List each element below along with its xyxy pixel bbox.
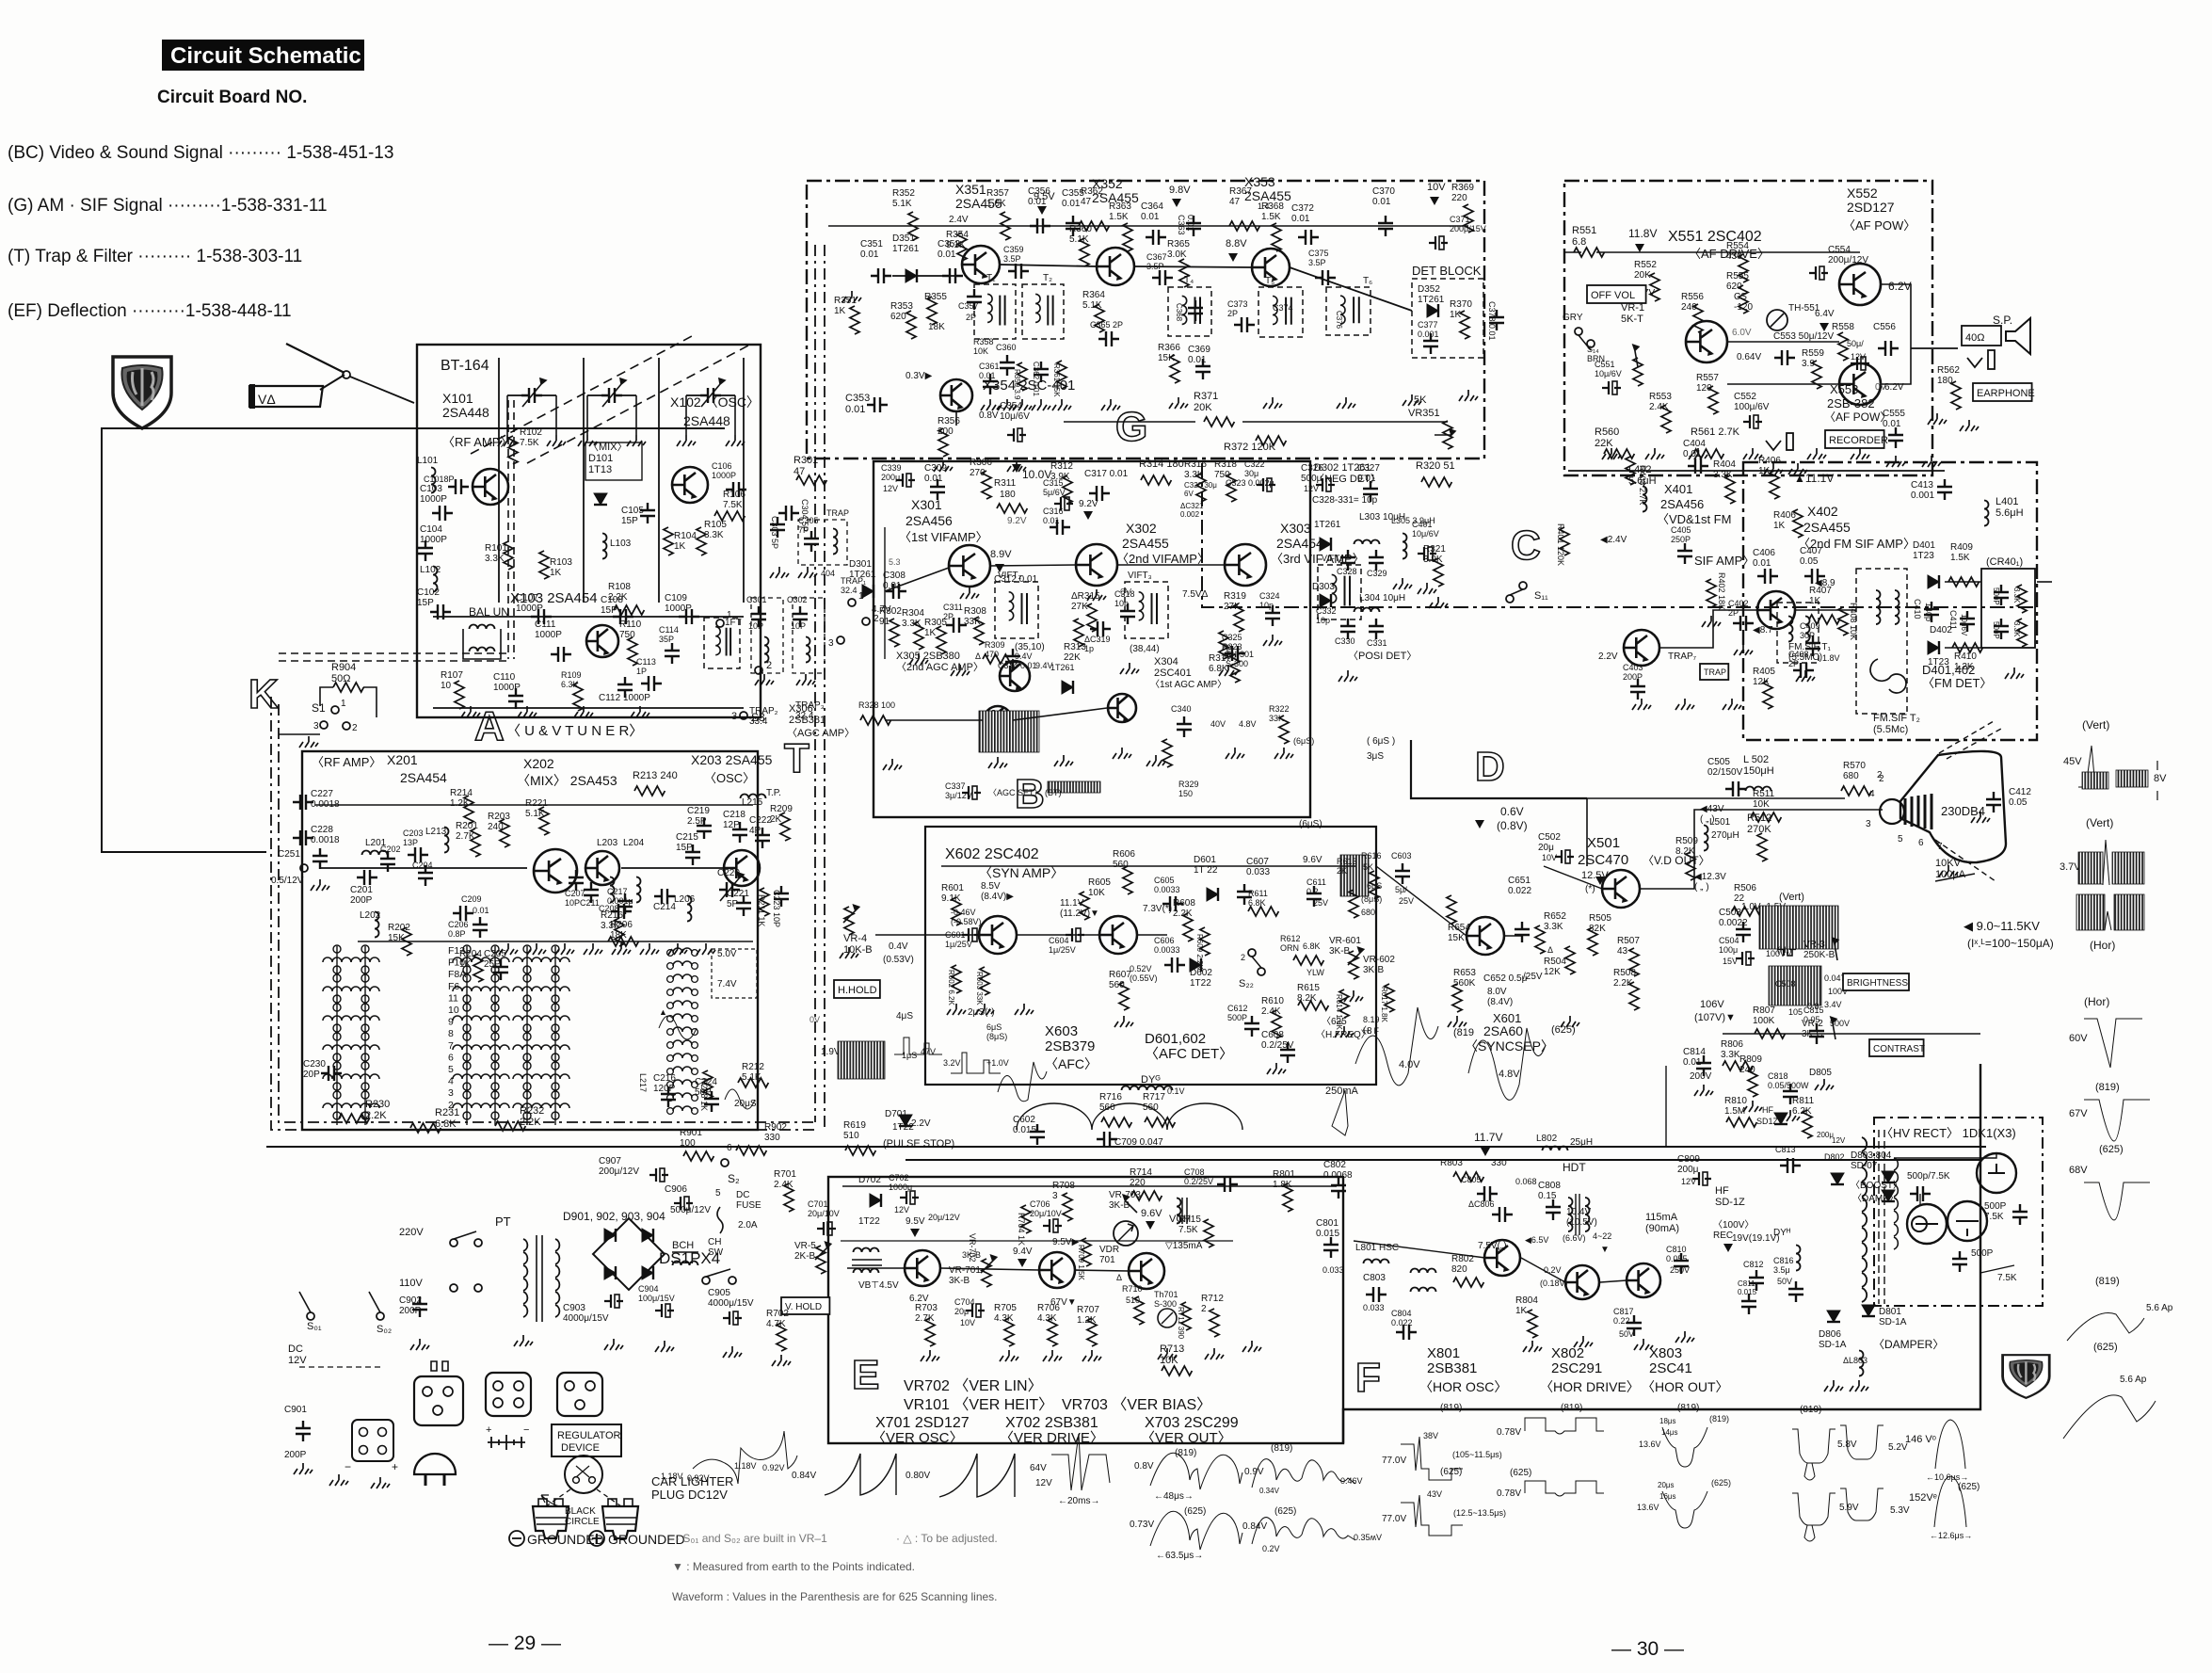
wire xyxy=(1579,335,1591,350)
resistor R317 xyxy=(1219,631,1228,659)
svg-text:A: A xyxy=(474,703,505,749)
svg-text:R319: R319 xyxy=(1224,591,1246,602)
svg-text:VR-5: VR-5 xyxy=(794,1241,816,1251)
svg-text:0.35ʍV: 0.35ʍV xyxy=(1354,1533,1382,1542)
svg-text:-120: -120 xyxy=(1734,302,1753,313)
svg-text:DC: DC xyxy=(288,1343,303,1355)
pot VR-3 xyxy=(1833,938,1838,960)
svg-text:13.6V: 13.6V xyxy=(1639,1440,1661,1449)
svg-text:220V: 220V xyxy=(399,1227,424,1238)
svg-text:2.7K: 2.7K xyxy=(915,1313,935,1324)
ground xyxy=(798,567,817,578)
wire xyxy=(1795,609,1856,611)
capacitor C104 xyxy=(418,540,433,561)
svg-text:2K-B: 2K-B xyxy=(794,1251,816,1262)
svg-text:5.6 Ap: 5.6 Ap xyxy=(2120,1375,2147,1385)
svg-text:(Vert): (Vert) xyxy=(2086,816,2113,829)
svg-text:(BC) Video & Sound Signal ····: (BC) Video & Sound Signal ········· 1-53… xyxy=(8,143,393,163)
svg-text:9.4V: 9.4V xyxy=(1013,1247,1033,1257)
svg-text:10p: 10p xyxy=(1316,616,1330,625)
svg-text:0.002: 0.002 xyxy=(1180,510,1200,519)
svg-text:C904: C904 xyxy=(638,1284,659,1294)
resistor R552 xyxy=(1650,273,1659,301)
dash link S01 S02 xyxy=(299,1366,380,1368)
capacitor xyxy=(1030,218,1050,233)
pot VR-701 xyxy=(981,1255,997,1273)
svg-text:3.5μ: 3.5μ xyxy=(1773,1265,1790,1275)
capacitor xyxy=(1396,1325,1417,1340)
sawtooth group 1 xyxy=(825,1454,896,1495)
ground xyxy=(677,435,696,446)
svg-text:X402: X402 xyxy=(1807,504,1838,519)
capacitor xyxy=(1120,603,1135,624)
svg-text:4.8V: 4.8V xyxy=(1499,1069,1520,1080)
CRT grid bars xyxy=(1905,794,1931,829)
switch S14 b xyxy=(1587,340,1595,347)
waveform xyxy=(1332,1090,1348,1135)
ground xyxy=(527,943,546,955)
svg-text:(Iˣ.ᴸ=100~150μA): (Iˣ.ᴸ=100~150μA) xyxy=(1967,937,2054,950)
ground xyxy=(1634,1339,1653,1350)
capacitor xyxy=(508,688,523,709)
svg-text:←12.6μs→: ←12.6μs→ xyxy=(1930,1531,1972,1540)
svg-text:3.3K: 3.3K xyxy=(1544,922,1563,932)
svg-text:〈HOR DRIVE〉: 〈HOR DRIVE〉 xyxy=(1540,1379,1640,1394)
svg-text:C227: C227 xyxy=(311,789,333,799)
svg-text:R801: R801 xyxy=(1273,1169,1295,1180)
wire xyxy=(1911,347,1958,349)
inductor xyxy=(1177,1198,1181,1224)
svg-text:C328: C328 xyxy=(1337,567,1357,576)
svg-text:270μH: 270μH xyxy=(1711,830,1739,841)
transistor X552 xyxy=(1839,264,1881,305)
resistor R504 xyxy=(1565,946,1575,974)
svg-text:1T261: 1T261 xyxy=(1050,663,1075,672)
inductor xyxy=(1364,1260,1389,1264)
capacitor xyxy=(1749,1270,1764,1291)
regulator circle xyxy=(565,1456,602,1493)
capacitor C205 xyxy=(493,959,508,980)
svg-text:(819): (819) xyxy=(2095,1276,2120,1287)
svg-text:0.3V▶: 0.3V▶ xyxy=(906,371,933,381)
resistor R716 xyxy=(1101,1118,1131,1127)
ground xyxy=(1114,1016,1133,1027)
inductor xyxy=(1122,1086,1147,1091)
ground xyxy=(1000,1350,1018,1361)
resistor xyxy=(703,1070,713,1099)
svg-text:R106: R106 xyxy=(723,490,745,500)
svg-text:C104: C104 xyxy=(420,524,442,535)
svg-text:(6μS): (6μS) xyxy=(1293,736,1314,746)
svg-text:X803: X803 xyxy=(1649,1345,1682,1361)
diode D902 xyxy=(604,1229,616,1242)
S3 terminal 3 xyxy=(837,636,844,644)
svg-text:S-300: S-300 xyxy=(1226,659,1248,668)
wire xyxy=(1000,265,1097,266)
capacitor xyxy=(1225,646,1245,661)
svg-text:◀2.4V: ◀2.4V xyxy=(1600,535,1627,545)
svg-text:47V: 47V xyxy=(921,1047,936,1056)
svg-text:3K-B: 3K-B xyxy=(949,1276,970,1286)
wire xyxy=(363,687,377,717)
svg-text:2SA454: 2SA454 xyxy=(1276,536,1323,551)
svg-text:SD-1A: SD-1A xyxy=(1819,1340,1847,1350)
svg-text:R206: R206 xyxy=(610,920,633,930)
svg-text:· S₀₁ and S₀₂ are built in VR–: · S₀₁ and S₀₂ are built in VR–1 xyxy=(676,1532,827,1545)
svg-text:R904: R904 xyxy=(331,662,356,673)
svg-text:5.0V: 5.0V xyxy=(717,949,737,959)
svg-text:1K: 1K xyxy=(1773,521,1786,531)
capacitor xyxy=(1783,1084,1798,1104)
wire xyxy=(1376,866,1467,936)
svg-text:D301: D301 xyxy=(849,559,872,570)
svg-text:C603: C603 xyxy=(1391,851,1412,861)
svg-text:C352: C352 xyxy=(938,239,960,249)
IF transformer IFT1 xyxy=(704,618,740,668)
svg-text:▽135mA: ▽135mA xyxy=(1165,1241,1203,1251)
svg-text:X701 2SD127: X701 2SD127 xyxy=(875,1415,970,1431)
svg-text:C302: C302 xyxy=(787,595,808,604)
trap box 2 xyxy=(751,598,783,673)
resistor xyxy=(2017,619,2027,647)
svg-text:X101: X101 xyxy=(442,391,473,406)
capacitor xyxy=(793,606,808,627)
svg-text:R103: R103 xyxy=(550,557,572,568)
electrolytic capacitor xyxy=(1809,266,1828,280)
pot VR-1 xyxy=(1633,345,1639,367)
svg-text:C706: C706 xyxy=(1030,1199,1050,1209)
ground xyxy=(1971,812,1990,823)
wire xyxy=(743,358,745,603)
waveform xyxy=(2103,840,2109,885)
svg-text:R716: R716 xyxy=(1099,1092,1122,1102)
ground xyxy=(461,706,480,717)
svg-text:3.0K: 3.0K xyxy=(1167,249,1187,260)
svg-text:R308: R308 xyxy=(964,606,986,617)
S01 lever xyxy=(299,1292,311,1312)
transistor X551 xyxy=(1686,321,1727,362)
svg-text:2SC41: 2SC41 xyxy=(1649,1360,1692,1376)
svg-text:C215: C215 xyxy=(676,832,698,843)
CRT funnel xyxy=(1900,751,2006,862)
marker xyxy=(1481,1148,1490,1156)
wire xyxy=(1586,798,1588,866)
svg-text:R612: R612 xyxy=(1280,934,1301,943)
switch CH a xyxy=(702,1277,710,1284)
svg-text:C602: C602 xyxy=(1013,1115,1035,1125)
svg-text:R807: R807 xyxy=(1753,1005,1775,1016)
capacitor xyxy=(871,268,891,283)
svg-text:27K: 27K xyxy=(1071,602,1088,612)
svg-text:R221: R221 xyxy=(525,798,548,809)
svg-text:BCH: BCH xyxy=(672,1240,694,1251)
svg-text:2SB381: 2SB381 xyxy=(789,715,825,726)
svg-text:C206: C206 xyxy=(448,920,469,929)
svg-text:C402: C402 xyxy=(1728,599,1749,608)
svg-text:C405: C405 xyxy=(1671,525,1691,535)
svg-text:0.015: 0.015 xyxy=(1316,1229,1339,1239)
svg-text:〈VER OSC〉: 〈VER OSC〉 xyxy=(872,1430,964,1446)
svg-text:TRAP₇: TRAP₇ xyxy=(1668,652,1697,662)
electrolytic capacitor xyxy=(674,1197,693,1210)
wire xyxy=(621,867,725,869)
electrolytic capacitor xyxy=(649,1168,668,1182)
waveform xyxy=(2067,1313,2144,1341)
svg-text:HDT: HDT xyxy=(1563,1161,1586,1174)
svg-text:C219: C219 xyxy=(687,806,710,816)
svg-text:152Vᵉ: 152Vᵉ xyxy=(1909,1492,1937,1504)
svg-text:R560: R560 xyxy=(1595,426,1619,438)
svg-text:20K: 20K xyxy=(1194,402,1212,413)
svg-text:9.6V: 9.6V xyxy=(1303,855,1322,865)
resistor VR-1 xyxy=(1633,358,1643,386)
svg-text:C211: C211 xyxy=(580,898,600,908)
svg-text:C111: C111 xyxy=(535,619,556,630)
svg-text:20P: 20P xyxy=(303,1070,320,1080)
resistor R607 xyxy=(1119,982,1129,1010)
ground xyxy=(1459,390,1478,401)
svg-text:C708: C708 xyxy=(1184,1167,1205,1177)
boundary mid dash pair b xyxy=(824,245,825,1130)
svg-text:12V: 12V xyxy=(288,1355,307,1366)
svg-text:C372: C372 xyxy=(1291,203,1314,214)
balun coil bottom xyxy=(470,648,495,652)
svg-text:◀ 9.0~11.5KV: ◀ 9.0~11.5KV xyxy=(1964,919,2040,933)
waveform xyxy=(693,1431,797,1484)
capacitor xyxy=(679,609,699,624)
resistor R352 xyxy=(908,212,918,240)
svg-text:T: T xyxy=(784,735,809,781)
svg-text:R365: R365 xyxy=(1167,239,1190,249)
ground xyxy=(612,943,631,955)
svg-text:C109: C109 xyxy=(665,593,687,603)
svg-text:10V: 10V xyxy=(1542,853,1557,862)
svg-text:R369: R369 xyxy=(1451,183,1474,193)
svg-text:R562: R562 xyxy=(1937,365,1960,376)
ground xyxy=(1602,448,1621,459)
car plug cylinder 1 xyxy=(533,1506,569,1538)
resistor R304 xyxy=(914,621,923,650)
switch S11 b xyxy=(1506,595,1514,603)
svg-text:SW: SW xyxy=(708,1247,724,1258)
switch 110 a xyxy=(450,1284,457,1292)
svg-text:C110: C110 xyxy=(493,672,516,683)
svg-text:D806: D806 xyxy=(1819,1329,1841,1340)
resistor R209 xyxy=(780,812,790,841)
svg-text:R705: R705 xyxy=(994,1303,1017,1313)
resistor R318 xyxy=(1226,474,1236,502)
svg-text:CH: CH xyxy=(708,1237,721,1247)
capacitor xyxy=(430,604,451,619)
svg-text:10K: 10K xyxy=(1753,799,1770,810)
svg-text:67V: 67V xyxy=(2069,1108,2088,1119)
ground xyxy=(1015,1004,1034,1015)
svg-text:R314 180: R314 180 xyxy=(1139,458,1184,470)
svg-text:15P: 15P xyxy=(417,598,434,608)
svg-text:←20ms→: ←20ms→ xyxy=(1058,1496,1099,1506)
svg-text:18K: 18K xyxy=(928,322,945,332)
svg-text:02/150V: 02/150V xyxy=(1707,767,1743,778)
diode D803 xyxy=(1882,1171,1895,1182)
svg-text:(Vert): (Vert) xyxy=(1779,892,1804,903)
svg-text:C813: C813 xyxy=(1775,1145,1796,1154)
IF transformer T1 xyxy=(974,284,1016,339)
svg-text:X102 〈OSC〉: X102 〈OSC〉 xyxy=(670,394,760,410)
inductor xyxy=(1859,1351,1864,1376)
resistor R807 xyxy=(1755,1029,1785,1038)
svg-text:2.2K: 2.2K xyxy=(1173,909,1193,919)
svg-text:6.2V: 6.2V xyxy=(1888,280,1912,293)
terminal 6 xyxy=(721,1159,729,1166)
svg-text:2SA455: 2SA455 xyxy=(1803,520,1851,535)
svg-text:D803,804: D803,804 xyxy=(1851,1150,1892,1161)
wire xyxy=(1596,251,1860,253)
resistor R806 xyxy=(1723,1061,1753,1070)
tuner coil bank 3 xyxy=(523,945,531,953)
resistor R311 xyxy=(997,504,1027,513)
svg-text:R362: R362 xyxy=(1081,186,1103,197)
transistor X603 xyxy=(1099,916,1137,954)
diode D801 xyxy=(1862,1305,1875,1316)
svg-text:R322: R322 xyxy=(1269,704,1290,714)
resistor xyxy=(760,888,769,916)
wire xyxy=(2037,581,2052,583)
resistor R708 xyxy=(1063,1193,1072,1221)
waveform xyxy=(1355,1007,1438,1086)
svg-text:R107: R107 xyxy=(441,670,463,681)
flyback winding xyxy=(1862,1137,1867,1151)
svg-text:0.01: 0.01 xyxy=(1141,212,1160,222)
trap coil 1 xyxy=(833,529,838,555)
svg-text:50V: 50V xyxy=(1777,1277,1792,1286)
wire xyxy=(433,707,744,709)
svg-text:X302: X302 xyxy=(1126,521,1157,536)
switch S02 xyxy=(377,1312,384,1320)
speaker coil box xyxy=(1962,326,2001,346)
svg-text:200P: 200P xyxy=(399,1306,422,1316)
svg-text:CONTRAST: CONTRAST xyxy=(1873,1044,1925,1054)
svg-text:HF: HF xyxy=(1715,1185,1729,1197)
svg-text:X552: X552 xyxy=(1847,185,1878,201)
svg-text:C403: C403 xyxy=(1623,663,1643,672)
electrolytic capacitor xyxy=(1777,942,1796,956)
ground xyxy=(998,399,1017,410)
capacitor xyxy=(886,584,906,599)
svg-text:C804: C804 xyxy=(1391,1309,1412,1318)
svg-text:C410: C410 xyxy=(1913,599,1922,619)
BRIGHTNESS box xyxy=(1843,973,1909,990)
svg-text:7.5VΔ: 7.5VΔ xyxy=(1182,589,1209,600)
svg-text:(819): (819) xyxy=(1800,1405,1821,1415)
svg-text:0.64V: 0.64V xyxy=(1737,352,1761,362)
IF transformer VIFT4 xyxy=(1318,565,1361,619)
resistor R362 xyxy=(1079,221,1109,231)
svg-text:C316: C316 xyxy=(1043,507,1064,516)
svg-text:0.34V: 0.34V xyxy=(1259,1487,1280,1495)
svg-text:2P: 2P xyxy=(943,612,954,621)
svg-text:R201: R201 xyxy=(456,821,478,831)
electrolytic capacitor xyxy=(1054,497,1073,510)
svg-text:0.73V: 0.73V xyxy=(1130,1520,1154,1530)
svg-text:−: − xyxy=(345,1460,351,1473)
svg-text:( „ ): ( „ ) xyxy=(1694,882,1709,893)
svg-text:6: 6 xyxy=(727,1143,732,1153)
resistor R221 xyxy=(539,807,549,835)
svg-text:R231: R231 xyxy=(435,1107,459,1118)
svg-text:(38,44): (38,44) xyxy=(1130,644,1160,654)
ground xyxy=(1632,699,1651,710)
electrolytic capacitor xyxy=(962,786,981,799)
svg-text:C367: C367 xyxy=(1146,252,1167,262)
ground xyxy=(921,1350,939,1361)
svg-text:2SB381: 2SB381 xyxy=(1427,1360,1477,1376)
resistor R612 xyxy=(1293,956,1323,965)
switch CH b xyxy=(729,1277,736,1284)
wire xyxy=(1939,721,1994,753)
svg-text:0.05/500W: 0.05/500W xyxy=(1768,1081,1809,1090)
svg-text:3K-B: 3K-B xyxy=(962,1250,981,1260)
resistor VR-601 xyxy=(1349,951,1358,979)
wire antenna xyxy=(320,375,345,390)
ground xyxy=(1158,1348,1177,1359)
resistor R606 xyxy=(1123,866,1132,894)
svg-text:R410: R410 xyxy=(1954,652,1977,662)
svg-text:4μS: 4μS xyxy=(896,1011,913,1021)
waveform xyxy=(725,1089,755,1109)
resistor R322 xyxy=(1279,716,1289,744)
svg-text:8: 8 xyxy=(448,1028,454,1039)
HV rect box xyxy=(1874,1118,2043,1306)
svg-text:R506: R506 xyxy=(1734,883,1756,893)
capacitor xyxy=(1005,649,1020,669)
capacitor xyxy=(1186,216,1201,236)
capacitor xyxy=(654,889,675,904)
svg-text:5: 5 xyxy=(448,1064,454,1075)
resistor R615 xyxy=(1298,1001,1328,1010)
ground xyxy=(934,460,953,472)
svg-text:L401: L401 xyxy=(1996,496,2018,507)
svg-text:BRN: BRN xyxy=(1587,354,1605,363)
capacitor xyxy=(1725,781,1746,796)
svg-text:R357: R357 xyxy=(986,188,1009,199)
svg-text:〈DAMPER〉: 〈DAMPER〉 xyxy=(1873,1338,1944,1351)
svg-text:3.4V: 3.4V xyxy=(1824,1000,1842,1009)
svg-text:←10.6μs→: ←10.6μs→ xyxy=(1926,1472,1968,1482)
svg-text:(8.4V)▶: (8.4V)▶ xyxy=(981,892,1014,902)
svg-text:R559: R559 xyxy=(1802,348,1824,359)
wire xyxy=(1134,266,1252,267)
wire xyxy=(1894,1153,1996,1158)
ground xyxy=(1561,1016,1579,1027)
capacitor xyxy=(1546,1199,1561,1220)
svg-text:0V: 0V xyxy=(809,1015,820,1024)
svg-text:C228: C228 xyxy=(311,825,333,835)
capacitor xyxy=(611,904,632,919)
diode D101 xyxy=(594,493,607,505)
electrolytic capacitor xyxy=(1257,478,1275,491)
waveform xyxy=(1252,1459,1355,1488)
svg-text:9.4V: 9.4V xyxy=(1015,652,1033,661)
ground xyxy=(299,736,318,748)
inductor xyxy=(1704,826,1708,851)
ground xyxy=(1169,397,1188,409)
svg-text:R109: R109 xyxy=(561,670,582,680)
svg-text:◀12.3V: ◀12.3V xyxy=(1694,872,1726,882)
resistor R231 xyxy=(410,1123,441,1133)
terminal 2 xyxy=(755,667,762,674)
CR401 box xyxy=(1981,569,2035,648)
resistor R367 xyxy=(1229,221,1259,231)
